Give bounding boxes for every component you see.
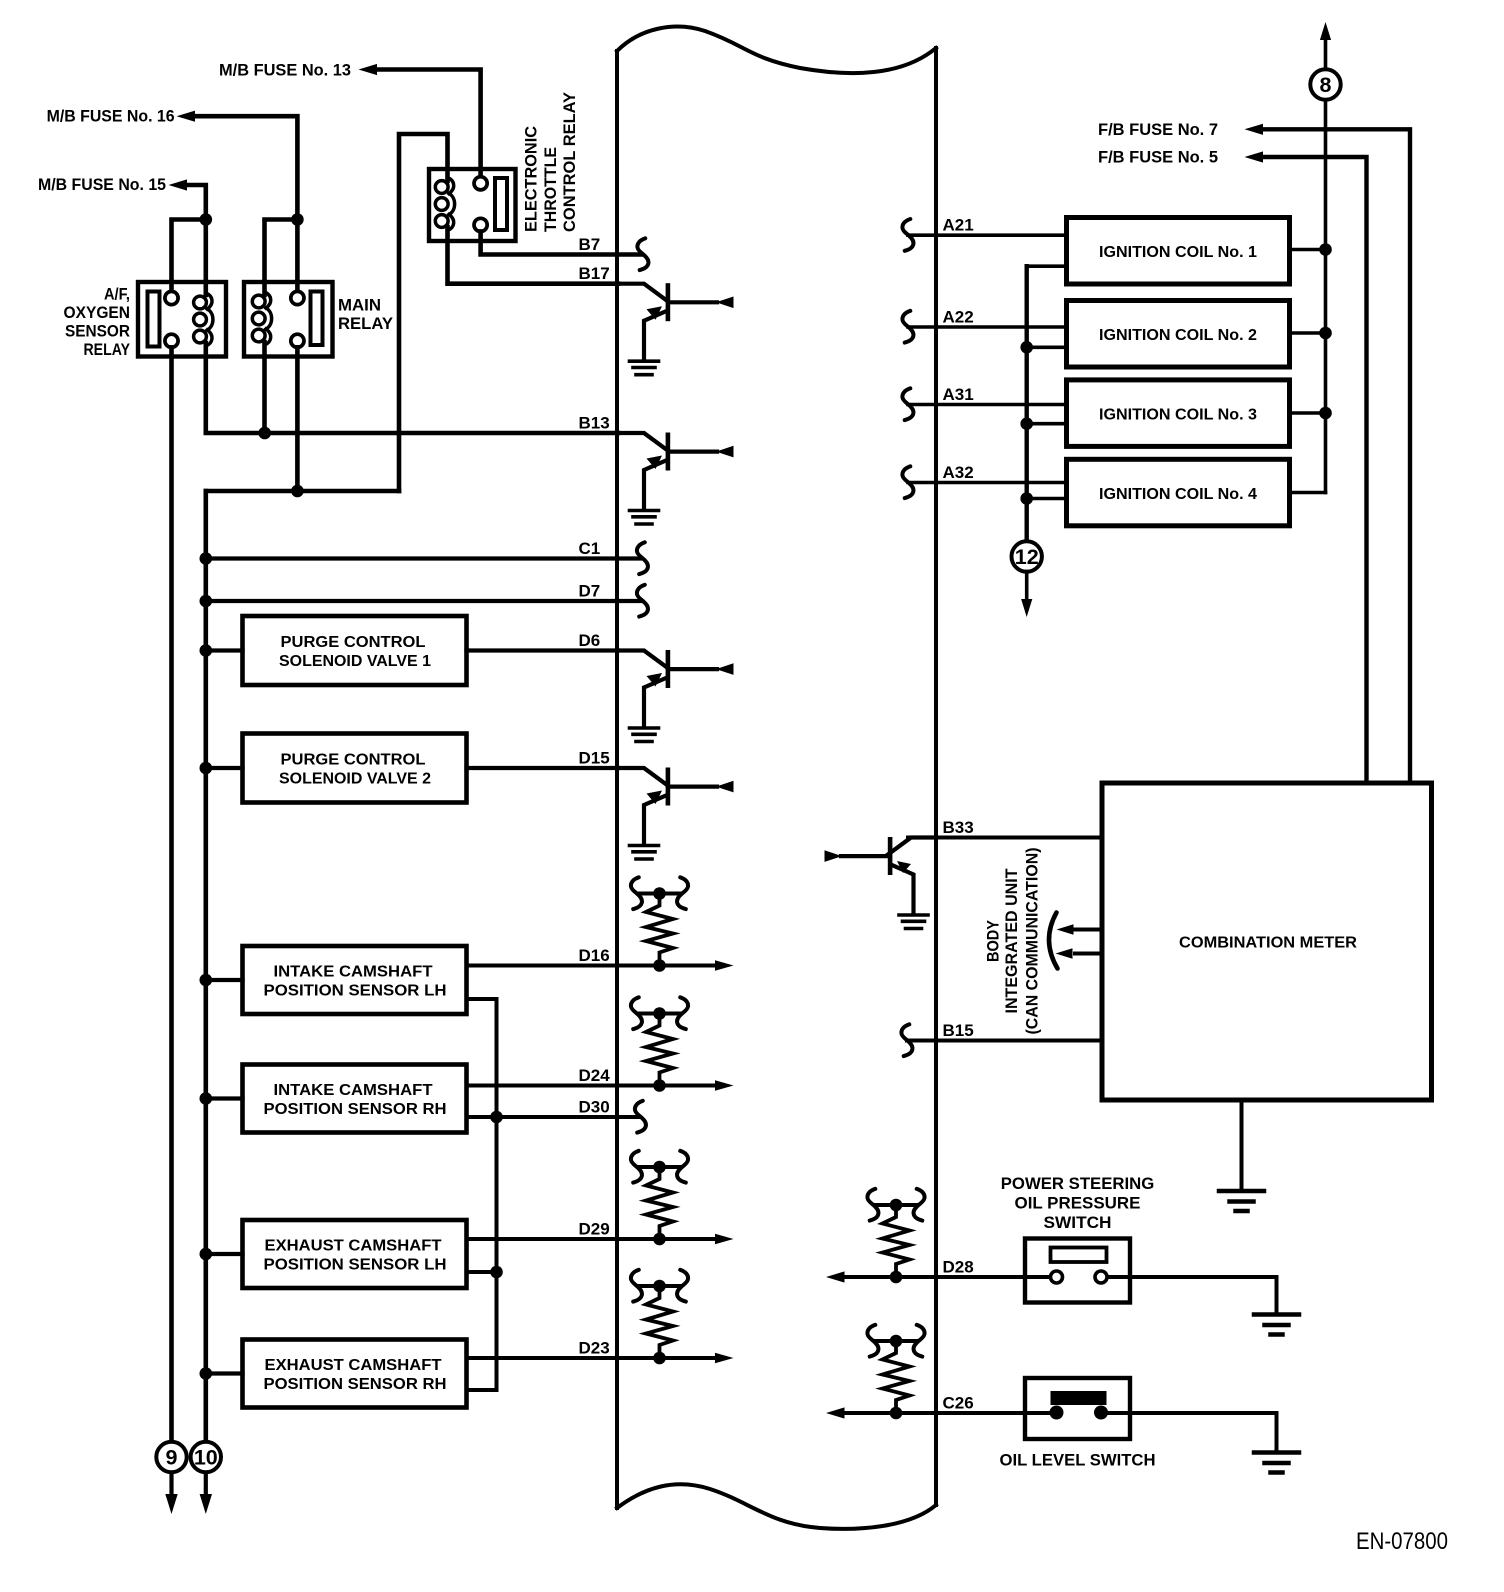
svg-text:OIL LEVEL SWITCH: OIL LEVEL SWITCH — [1000, 1451, 1156, 1470]
wire ignition coil No.2 output pin — [1290, 331, 1326, 335]
connector curl A32 — [902, 466, 913, 498]
wire A21 to ignition coil No.1 — [908, 233, 1067, 237]
wire A22 to ignition coil No.2 — [908, 325, 1067, 329]
svg-text:8: 8 — [1320, 73, 1332, 97]
pressure switch contact left — [1051, 1271, 1063, 1283]
ground B33 emitter — [899, 915, 928, 929]
svg-text:F/B FUSE No. 5: F/B FUSE No. 5 — [1098, 148, 1218, 167]
oil level switch box — [1025, 1378, 1130, 1439]
node D30 junction exhaust — [490, 1266, 503, 1279]
wire D29 sensor signal — [467, 1237, 717, 1241]
svg-text:POSITION SENSOR RH: POSITION SENSOR RH — [264, 1376, 447, 1393]
node secondary coil1 — [1319, 243, 1332, 256]
wire D7 — [206, 599, 640, 603]
wire A31 to ignition coil No.3 — [908, 403, 1067, 407]
svg-text:D28: D28 — [943, 1258, 974, 1277]
wire bus to sensor — [206, 1371, 243, 1375]
wire exhaust LH return stub — [467, 1270, 497, 1274]
arrow D28 out of ECM — [826, 1271, 845, 1282]
svg-text:A32: A32 — [943, 463, 974, 482]
svg-text:INTEGRATED UNIT: INTEGRATED UNIT — [1002, 868, 1021, 1014]
svg-text:IGNITION COIL No. 4: IGNITION COIL No. 4 — [1099, 486, 1257, 503]
ignition coil No.3 box — [1067, 380, 1290, 447]
svg-text:D6: D6 — [579, 631, 601, 650]
transistor D6 driver — [618, 650, 734, 727]
label power steering oil pressure switch — [1001, 1174, 1155, 1232]
wire ignition coil No.4 supply pin — [1027, 497, 1067, 501]
node fuse15 junction — [200, 213, 213, 226]
oil level switch element — [1051, 1391, 1107, 1405]
svg-text:B7: B7 — [579, 235, 601, 254]
wire B15 to combination meter — [907, 1039, 1102, 1043]
connector curl B15 — [901, 1024, 912, 1056]
arrow to M/B FUSE No. 15 — [169, 179, 188, 190]
connector curl A22 — [902, 311, 913, 343]
oil level switch contact right — [1094, 1406, 1108, 1420]
ECM boundary right edge — [934, 48, 938, 1505]
intake camshaft position sensor RH box — [243, 1065, 467, 1133]
resistor pull-up D23 — [631, 1270, 688, 1365]
ETC relay contact bar — [495, 178, 507, 230]
wire M/B fuse 13 to ETC relay top pin — [376, 70, 481, 177]
label A/F oxygen sensor relay — [64, 285, 131, 360]
svg-text:D29: D29 — [579, 1220, 610, 1239]
ignition coil No.1 box — [1067, 218, 1290, 285]
wire bus to sensor — [206, 978, 243, 982]
main relay pin bottom — [291, 334, 304, 347]
wire branch to main relay coil — [265, 220, 298, 296]
svg-text:A/F,: A/F, — [104, 285, 130, 304]
node sensor tap — [200, 1092, 213, 1105]
wire C26 — [843, 1411, 1056, 1415]
resistor pull-up C26 — [867, 1325, 924, 1420]
arrow down circle 9 — [165, 1494, 177, 1514]
pressure switch element — [1051, 1248, 1107, 1263]
node fuse16 junction — [291, 213, 304, 226]
node sensor tap — [200, 974, 213, 987]
svg-text:IGNITION COIL No. 2: IGNITION COIL No. 2 — [1099, 327, 1257, 344]
wire B7 from ETC relay contact — [481, 231, 641, 254]
node C1 tap — [200, 552, 213, 565]
wire main relay coil to B13 — [262, 342, 267, 433]
wire ignition coil No.4 output pin — [1290, 491, 1326, 495]
svg-text:C1: C1 — [579, 539, 601, 558]
arrow D23 into ECM — [715, 1353, 734, 1363]
svg-text:M/B FUSE No. 16: M/B FUSE No. 16 — [47, 107, 175, 126]
svg-text:B15: B15 — [943, 1021, 974, 1040]
wire M/B fuse 16 to main relay — [194, 116, 297, 291]
ground D15 emitter — [630, 846, 659, 860]
node D7 tap — [200, 595, 213, 608]
ground D6 emitter — [630, 728, 659, 742]
node supply coil3 — [1020, 417, 1033, 430]
transistor B33 driver (mirrored) — [825, 837, 935, 914]
wire M/B fuse 15 to A/F relay coil — [186, 185, 206, 295]
wire D24 sensor signal — [467, 1084, 717, 1088]
wire sensor return common vertical — [467, 999, 497, 1390]
svg-text:D7: D7 — [579, 582, 601, 601]
transistor B13 driver — [618, 433, 734, 510]
svg-text:9: 9 — [166, 1446, 178, 1470]
svg-text:B33: B33 — [943, 818, 974, 837]
label body integrated unit (rotated) — [984, 848, 1042, 1035]
node supply coil2 — [1020, 341, 1033, 354]
power steering oil pressure switch box — [1025, 1239, 1130, 1303]
wire combination meter ground lead — [1240, 1100, 1244, 1190]
svg-text:D24: D24 — [579, 1066, 611, 1085]
wire ignition coil No.1 supply pin — [1027, 264, 1067, 268]
arrow to M/B FUSE No. 13 — [359, 64, 378, 75]
wire ignition coil No.2 supply pin — [1027, 345, 1067, 349]
wire ETC relay coil feed from output rail — [399, 134, 448, 491]
wire D15 — [467, 766, 619, 770]
transistor B17 driver — [618, 283, 734, 360]
svg-text:M/B FUSE No. 15: M/B FUSE No. 15 — [38, 175, 166, 194]
ignition coil No.2 box — [1067, 301, 1290, 368]
svg-text:(CAN COMMUNICATION): (CAN COMMUNICATION) — [1023, 848, 1042, 1035]
ETC relay pin top — [474, 177, 487, 190]
wire branch to A/F relay contact pin — [172, 220, 206, 292]
node secondary coil3 — [1319, 407, 1332, 420]
svg-text:EXHAUST CAMSHAFT: EXHAUST CAMSHAFT — [265, 1238, 442, 1255]
main relay contact bar — [311, 292, 323, 346]
purge control solenoid valve 2 box — [243, 734, 467, 803]
combination meter box — [1102, 783, 1432, 1100]
main relay pin top — [291, 291, 304, 304]
wire D6 — [467, 648, 619, 652]
svg-text:RELAY: RELAY — [338, 314, 394, 333]
wire F/B fuse 7 to combination meter — [1262, 129, 1410, 783]
svg-text:INTAKE CAMSHAFT: INTAKE CAMSHAFT — [274, 964, 433, 981]
svg-text:PURGE CONTROL: PURGE CONTROL — [281, 634, 426, 651]
svg-text:POSITION SENSOR LH: POSITION SENSOR LH — [264, 1257, 447, 1274]
arrow down circle 12 — [1026, 0, 1028, 2]
arrow to F/B FUSE No. 5 — [1245, 151, 1264, 162]
svg-text:B13: B13 — [579, 414, 610, 433]
wire ignition coil No.3 output pin — [1290, 411, 1326, 415]
node supply coil4 — [1020, 492, 1033, 505]
ECM torn bottom edge — [617, 1484, 936, 1529]
wire bus to sensor — [206, 1096, 243, 1100]
svg-text:POWER STEERING: POWER STEERING — [1001, 1174, 1155, 1193]
connector circle 10 — [204, 1471, 208, 1495]
svg-text:SOLENOID VALVE 2: SOLENOID VALVE 2 — [279, 771, 431, 788]
arrow D24 into ECM — [715, 1080, 734, 1090]
ETC relay coil — [435, 178, 454, 231]
svg-text:D16: D16 — [579, 946, 610, 965]
wire bus to sensor — [206, 1252, 243, 1256]
svg-text:OIL PRESSURE: OIL PRESSURE — [1015, 1194, 1141, 1213]
label main relay — [338, 296, 394, 334]
svg-text:SOLENOID VALVE 1: SOLENOID VALVE 1 — [279, 653, 431, 670]
CAN arrow lower — [1075, 952, 1102, 956]
svg-text:RELAY: RELAY — [84, 340, 131, 359]
svg-text:SWITCH: SWITCH — [1044, 1213, 1112, 1232]
wire B17 from ETC relay coil — [448, 227, 619, 284]
wire A32 to ignition coil No.4 — [908, 481, 1067, 485]
connector curl A21 — [902, 219, 913, 251]
node B13 junction — [258, 427, 271, 440]
ETC relay pin bottom — [474, 218, 487, 231]
A/F relay coil — [194, 293, 213, 346]
wire bus to valve 2 — [206, 766, 243, 770]
wire main relay output rail y491 — [206, 489, 399, 494]
wire left bus 2 output rail down to circled 10 — [204, 491, 209, 1442]
node D30 junction intake — [490, 1111, 503, 1124]
wire D28 — [843, 1275, 1050, 1279]
node sensor tap — [200, 1248, 213, 1261]
node sensor tap — [200, 1367, 213, 1380]
wire C1 — [206, 556, 640, 560]
svg-text:SENSOR: SENSOR — [65, 322, 130, 341]
label electronic throttle control relay (rotated) — [522, 91, 580, 232]
svg-text:POSITION SENSOR LH: POSITION SENSOR LH — [264, 983, 447, 1000]
pressure switch contact right — [1095, 1271, 1107, 1283]
svg-text:A21: A21 — [943, 216, 974, 235]
ground power steering switch — [1254, 1315, 1299, 1335]
svg-text:BODY: BODY — [984, 919, 1003, 962]
connector curl D7 — [637, 585, 648, 617]
resistor pull-up D16 — [631, 877, 688, 972]
main relay coil — [252, 292, 271, 345]
wire D23 sensor signal — [467, 1356, 717, 1360]
exhaust camshaft position sensor LH box — [243, 1220, 467, 1288]
svg-text:10: 10 — [194, 1446, 218, 1470]
transistor D15 driver — [618, 768, 734, 845]
svg-text:IGNITION COIL No. 3: IGNITION COIL No. 3 — [1099, 406, 1257, 423]
wire bus to valve 1 — [206, 648, 243, 652]
svg-text:THROTTLE: THROTTLE — [541, 147, 560, 232]
A/F relay pin bottom — [165, 334, 178, 347]
ground B17 emitter — [630, 361, 659, 375]
arrow D29 into ECM — [715, 1234, 734, 1244]
wire D30 sensor return — [467, 1115, 639, 1119]
wire D16 sensor signal — [467, 964, 717, 968]
ECM boundary left edge — [615, 51, 619, 1508]
arrow to M/B FUSE No. 16 — [177, 111, 196, 122]
arrow up circle 8 — [1324, 40, 1328, 69]
connector curl D30 — [635, 1101, 646, 1133]
connector circle 8 — [1310, 69, 1340, 99]
svg-text:D23: D23 — [579, 1339, 610, 1358]
svg-text:A22: A22 — [943, 308, 974, 327]
ground oil level switch — [1254, 1453, 1299, 1473]
wire left bus A/F relay output down to circled 9 — [169, 347, 174, 1442]
svg-text:EN-07800: EN-07800 — [1356, 1528, 1448, 1555]
svg-text:B17: B17 — [579, 264, 610, 283]
svg-text:A31: A31 — [943, 385, 974, 404]
resistor pull-up D29 — [631, 1151, 688, 1246]
connector circle 12 — [1011, 541, 1041, 571]
node valve2 tap — [200, 762, 213, 775]
arrow D16 into ECM — [715, 960, 734, 970]
svg-text:MAIN: MAIN — [338, 296, 381, 315]
connector circle 9 — [169, 1471, 173, 1495]
svg-text:INTAKE CAMSHAFT: INTAKE CAMSHAFT — [274, 1082, 433, 1099]
arrow down circle 10 — [200, 1494, 212, 1514]
svg-text:EXHAUST CAMSHAFT: EXHAUST CAMSHAFT — [265, 1357, 442, 1374]
ignition coil No.4 box — [1067, 459, 1290, 526]
wire ignition secondary bus to circled 8 — [1324, 100, 1328, 493]
wire pressure switch to ground — [1108, 1277, 1277, 1313]
A/F relay pin top — [165, 291, 178, 304]
node valve1 tap — [200, 644, 213, 657]
relay main relay box — [244, 282, 333, 357]
wire B33 to combination meter — [908, 836, 1102, 840]
relay electronic throttle control relay box — [429, 169, 516, 241]
wire ignition coil No.3 supply pin — [1027, 422, 1067, 426]
node main relay output junction — [291, 485, 304, 498]
node secondary coil2 — [1319, 327, 1332, 340]
connector curl A31 — [902, 388, 913, 420]
resistor pull-up D28 — [867, 1189, 924, 1284]
connector curl B7 — [637, 238, 648, 270]
svg-text:POSITION SENSOR RH: POSITION SENSOR RH — [264, 1101, 447, 1118]
ground combination meter — [1219, 1191, 1264, 1211]
connector curl C1 — [637, 542, 648, 574]
svg-text:F/B FUSE No. 7: F/B FUSE No. 7 — [1098, 120, 1218, 139]
wire B13 from A/F relay coil — [206, 343, 618, 433]
wire ignition coil No.1 output pin — [1290, 248, 1326, 252]
svg-text:IGNITION COIL No. 1: IGNITION COIL No. 1 — [1099, 244, 1257, 261]
wire main relay contact output down — [295, 347, 300, 491]
wire oil level switch to ground — [1101, 1413, 1277, 1451]
svg-text:C26: C26 — [943, 1394, 974, 1413]
CAN arrow upper — [1075, 928, 1102, 932]
arrow to F/B FUSE No. 7 — [1245, 124, 1264, 135]
wire F/B fuse 5 to combination meter — [1262, 157, 1367, 783]
svg-text:D15: D15 — [579, 749, 610, 768]
svg-text:CONTROL RELAY: CONTROL RELAY — [560, 91, 579, 232]
svg-text:M/B FUSE No. 13: M/B FUSE No. 13 — [219, 61, 351, 80]
intake camshaft position sensor LH box — [243, 946, 467, 1014]
svg-text:ELECTRONIC: ELECTRONIC — [522, 126, 541, 232]
purge control solenoid valve 1 box — [243, 616, 467, 685]
svg-text:OXYGEN: OXYGEN — [64, 303, 131, 322]
resistor pull-up D24 — [631, 997, 688, 1092]
ECM torn top edge — [617, 27, 936, 74]
svg-text:D30: D30 — [579, 1098, 610, 1117]
arrow C26 out of ECM — [826, 1407, 845, 1418]
CAN communication arc — [1049, 913, 1058, 969]
relay A/F oxygen sensor relay box — [138, 282, 226, 357]
ground B13 emitter — [630, 511, 659, 525]
oil level switch contact left — [1050, 1406, 1064, 1420]
svg-text:PURGE CONTROL: PURGE CONTROL — [281, 752, 426, 769]
wire ignition coil supply bus — [1024, 266, 1028, 541]
svg-text:COMBINATION METER: COMBINATION METER — [1179, 935, 1357, 952]
exhaust camshaft position sensor RH box — [243, 1340, 467, 1408]
A/F relay contact bar — [148, 292, 160, 347]
svg-text:12: 12 — [1015, 545, 1039, 569]
